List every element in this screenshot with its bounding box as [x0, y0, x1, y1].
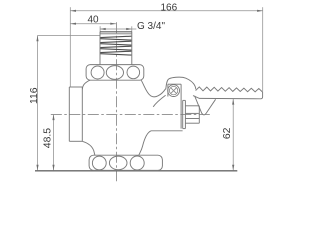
- svg-text:48.5: 48.5: [43, 128, 54, 148]
- svg-text:166: 166: [160, 2, 177, 13]
- svg-text:116: 116: [29, 87, 40, 104]
- svg-text:40: 40: [87, 15, 99, 26]
- svg-text:62: 62: [222, 127, 233, 139]
- svg-text:G 3/4": G 3/4": [137, 21, 165, 32]
